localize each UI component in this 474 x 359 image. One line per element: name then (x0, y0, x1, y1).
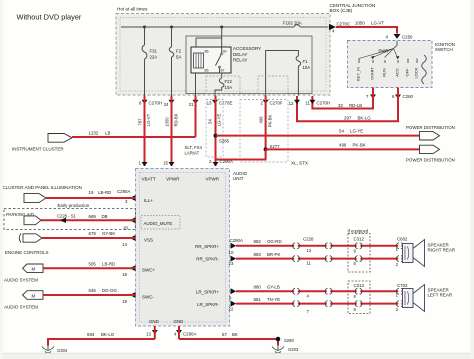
if equipped box (upper) (348, 234, 370, 273)
audio unit box (136, 169, 230, 327)
svg-text:S277: S277 (270, 144, 281, 149)
svg-text:C802: C802 (397, 237, 408, 242)
wire 1050 LG-VT (336, 27, 397, 34)
svg-text:PWR: PWR (379, 48, 389, 53)
wire 880 GY-LB (LR+) (236, 290, 403, 292)
svg-text:S285: S285 (219, 139, 230, 144)
connector C802 (396, 243, 403, 262)
wire 881 TN-YE (LR-) (236, 303, 403, 305)
wire S277 branch to radio VPWR (216, 149, 266, 159)
svg-text:BK-LG: BK-LG (101, 332, 115, 337)
svg-text:646: 646 (89, 288, 97, 293)
svg-text:C270H: C270H (317, 101, 331, 106)
node: bus junction at F31 (143, 26, 146, 29)
svg-text:14: 14 (122, 242, 127, 247)
svg-text:883: 883 (254, 252, 262, 257)
connector: audio system M 1 (23, 264, 44, 273)
svg-text:505: 505 (89, 262, 97, 267)
power distribution arrow 1 (420, 132, 440, 140)
wire 499 PK-BK riser (265, 96, 267, 150)
svg-text:C312: C312 (354, 237, 365, 242)
svg-text:54: 54 (339, 129, 344, 134)
svg-text:1050: 1050 (164, 117, 169, 127)
svg-text:G203: G203 (288, 347, 299, 352)
svg-text:SWITCH: SWITCH (435, 47, 453, 52)
node S285 (214, 134, 218, 138)
fuse F1 10A (296, 56, 301, 66)
svg-text:22: 22 (229, 307, 234, 312)
connector C250 pin 4 (394, 34, 401, 39)
connector: engine controls (19, 234, 21, 243)
svg-text:1050: 1050 (355, 21, 365, 26)
svg-text:KEY_IN: KEY_IN (356, 67, 361, 81)
svg-text:F1: F1 (303, 59, 309, 64)
fuse F2 5A (171, 27, 173, 96)
svg-text:Without DVD player: Without DVD player (17, 13, 82, 22)
svg-text:BOX (CJB): BOX (CJB) (330, 8, 353, 13)
svg-text:DELAY: DELAY (233, 52, 247, 57)
svg-text:297: 297 (344, 115, 352, 120)
svg-text:ACCESSORY: ACCESSORY (233, 46, 261, 51)
svg-text:RIGHT REAR: RIGHT REAR (428, 248, 456, 253)
svg-text:VBATT: VBATT (142, 177, 156, 182)
fuse F31 22A (144, 27, 146, 96)
svg-text:679: 679 (89, 231, 97, 236)
svg-text:C290A: C290A (183, 332, 196, 337)
ground G203 (272, 345, 284, 353)
ignition switch contacts (359, 59, 417, 64)
svg-text:BK: BK (232, 332, 238, 337)
wire: hot bus (121, 26, 329, 28)
svg-text:TN-YE: TN-YE (267, 297, 280, 302)
svg-text:C228 - S1: C228 - S1 (57, 213, 77, 218)
svg-text:AUDIO_MUTE: AUDIO_MUTE (144, 221, 173, 226)
svg-text:10: 10 (229, 250, 234, 255)
wire 505 LB-RD (43, 267, 135, 269)
svg-text:LB: LB (105, 131, 110, 136)
svg-text:Early production: Early production (58, 203, 90, 208)
svg-text:LG-YE: LG-YE (350, 129, 363, 134)
if equipped box (lower) (348, 281, 370, 314)
wire 19 LB-RD (46, 197, 135, 199)
svg-text:PK-BK: PK-BK (353, 142, 366, 147)
svg-text:C702: C702 (397, 283, 408, 288)
svg-text:RR_SPKR+: RR_SPKR+ (195, 244, 219, 249)
svg-text:19: 19 (122, 299, 127, 304)
svg-text:797: 797 (137, 118, 142, 126)
svg-text:19: 19 (89, 190, 94, 195)
svg-text:LEFT REAR: LEFT REAR (428, 293, 453, 298)
svg-text:87: 87 (221, 69, 225, 73)
relay contact (216, 47, 222, 73)
wire 679 GY-BK (42, 237, 135, 239)
svg-text:694: 694 (87, 332, 95, 337)
svg-text:C290A: C290A (220, 159, 233, 164)
radio pin 20 AUDIO_MUTE (130, 217, 136, 223)
svg-text:UNIT: UNIT (233, 176, 244, 181)
svg-text:F2: F2 (176, 49, 182, 54)
wire 694 BK-LG ground left (48, 326, 155, 346)
svg-text:S280: S280 (284, 338, 294, 343)
wire 882 OG-RD (RR+) (236, 245, 403, 247)
wire 883 BR-PK (RR-) (236, 258, 403, 260)
wire 54 LG-YE to power distribution (216, 135, 420, 137)
radio pin 19 SWC- (130, 292, 136, 298)
svg-text:GND: GND (149, 319, 159, 324)
dashed variant box inside CJB (right) (258, 76, 288, 94)
wire 57 BK ground right (179, 326, 278, 346)
svg-text:10A: 10A (303, 65, 311, 70)
svg-text:START: START (370, 67, 375, 80)
dashed variant box inside CJB (left) (206, 76, 240, 94)
svg-text:C260: C260 (403, 94, 414, 99)
svg-text:ACC: ACC (395, 68, 400, 77)
connector C702 (396, 288, 403, 306)
connector C270C pin 4 (329, 24, 336, 30)
svg-text:POWER DISTRIBUTION: POWER DISTRIBUTION (406, 158, 455, 163)
svg-text:RR_SPKR-: RR_SPKR- (196, 257, 219, 262)
CJB internal module sub-box (186, 36, 312, 94)
speaker right rear (403, 244, 414, 263)
connector: parking aid (24, 216, 41, 225)
svg-text:LB-RD: LB-RD (98, 190, 111, 195)
svg-text:SWC-: SWC- (142, 295, 154, 300)
inline connector pair C228 (upper) (293, 243, 300, 262)
radio pin 18 SWC+ (130, 265, 136, 271)
svg-text:12: 12 (289, 101, 294, 106)
ignition coil winding (422, 55, 427, 84)
svg-text:VSS: VSS (144, 238, 153, 243)
svg-text:VPWR: VPWR (166, 177, 180, 182)
svg-text:VPWR: VPWR (206, 177, 220, 182)
svg-text:RUN: RUN (382, 68, 387, 77)
relay feed wire (196, 27, 222, 47)
svg-text:54: 54 (207, 119, 212, 124)
svg-text:BR-PK: BR-PK (267, 252, 280, 257)
svg-text:XL, STX: XL, STX (291, 161, 308, 166)
svg-text:1232: 1232 (89, 131, 99, 136)
fuse F22 10A (215, 73, 222, 96)
svg-text:C270C: C270C (337, 21, 351, 26)
power distribution arrow 2 (420, 145, 440, 153)
svg-text:C313: C313 (354, 283, 365, 288)
svg-text:C290A: C290A (117, 189, 130, 194)
svg-text:LG-VT: LG-VT (371, 21, 384, 26)
svg-text:57: 57 (222, 332, 227, 337)
wire 1050 RD-BK riser to radio pin 15 (171, 96, 173, 167)
connector C313 (355, 288, 362, 306)
svg-text:C250: C250 (402, 35, 413, 40)
svg-text:BK-LG: BK-LG (358, 115, 372, 120)
svg-text:24: 24 (164, 102, 169, 107)
svg-text:499: 499 (258, 116, 263, 124)
node S280 (276, 337, 281, 342)
svg-text:LG-VT: LG-VT (146, 113, 151, 126)
svg-text:OG-RD: OG-RD (267, 239, 282, 244)
node: bus junction at relay feed (220, 26, 223, 29)
svg-text:86: 86 (205, 50, 209, 54)
svg-text:RELAY: RELAY (233, 58, 247, 63)
svg-text:499: 499 (339, 142, 347, 147)
ground G304 (42, 345, 54, 353)
radio pin 14 VSS (130, 235, 136, 241)
svg-text:880: 880 (254, 285, 262, 290)
relay coil ground wire to pin 21 (195, 73, 197, 96)
svg-text:DB: DB (102, 214, 108, 219)
svg-text:If equipped: If equipped (348, 228, 369, 233)
svg-text:10A: 10A (225, 85, 233, 90)
svg-text:GY-LB: GY-LB (267, 285, 280, 290)
wire 1232 LB (72, 136, 196, 138)
svg-text:C270H: C270H (149, 101, 163, 106)
svg-text:F102 20A: F102 20A (283, 21, 302, 26)
wire riser pin 21 to cluster wire (195, 96, 197, 138)
svg-text:M: M (32, 293, 36, 298)
svg-text:POWER DISTRIBUTION: POWER DISTRIBUTION (406, 125, 455, 130)
svg-text:C270E: C270E (219, 101, 232, 106)
svg-text:OFF: OFF (405, 68, 410, 77)
svg-text:XLT, FX4: XLT, FX4 (185, 145, 203, 150)
connector: cluster illumination (24, 194, 46, 203)
connector: instrument cluster (48, 134, 72, 143)
svg-text:12: 12 (307, 248, 312, 253)
svg-text:F31: F31 (150, 49, 158, 54)
svg-text:23: 23 (229, 261, 234, 266)
svg-text:689: 689 (89, 214, 97, 219)
svg-text:CLUSTER AND PANEL ILLUMINATION: CLUSTER AND PANEL ILLUMINATION (3, 185, 82, 190)
svg-text:PK-BK: PK-BK (267, 115, 272, 128)
svg-text:13: 13 (207, 101, 212, 106)
svg-text:ILL+: ILL+ (144, 198, 153, 203)
wire 646 DG-OG (43, 294, 135, 296)
dashed variant box XL STX (240, 100, 288, 163)
connector: audio system M 2 (23, 291, 44, 300)
svg-text:LR_SPKR-: LR_SPKR- (197, 302, 220, 307)
svg-text:13: 13 (146, 332, 151, 337)
svg-text:5A: 5A (176, 55, 181, 60)
svg-text:85: 85 (205, 69, 209, 73)
wire: C270F to F1 loop (266, 51, 299, 96)
svg-text:881: 881 (254, 297, 262, 302)
svg-text:GND: GND (174, 319, 184, 324)
svg-text:Hot at all times: Hot at all times (117, 7, 148, 12)
svg-text:GY-BK: GY-BK (102, 231, 115, 236)
svg-text:21: 21 (189, 102, 194, 107)
relay: accessory delay relay box (191, 47, 231, 73)
fuse F102 20A (on bus) (294, 25, 300, 27)
svg-text:18: 18 (122, 272, 127, 277)
svg-text:LOCK: LOCK (414, 67, 419, 78)
svg-text:22A: 22A (150, 55, 158, 60)
wire 797 LG-VT riser to radio pin 1 (144, 96, 146, 167)
node S277 (264, 147, 268, 151)
svg-text:AUDIO SYSTEM: AUDIO SYSTEM (4, 277, 38, 282)
svg-text:LR_SPKR+: LR_SPKR+ (196, 289, 220, 294)
svg-text:11: 11 (307, 261, 312, 266)
wire 689 DB (41, 219, 135, 221)
svg-text:11: 11 (305, 101, 310, 106)
svg-text:15: 15 (163, 161, 168, 166)
node: bus junction at F2 (170, 26, 173, 29)
dashed variant box XLT FX4 LARIAT (206, 100, 223, 158)
CJB inner dotted border (120, 18, 326, 92)
wire 499 PK-BK to power distribution (266, 148, 420, 150)
inline connector pair (lower second) (325, 288, 332, 306)
speaker left rear (403, 289, 414, 308)
radio pin 3 ILL+ (130, 195, 136, 201)
svg-text:ENGINE CONTROLS: ENGINE CONTROLS (5, 250, 49, 255)
ignition switch feed stub (394, 41, 398, 49)
svg-text:C290A: C290A (230, 238, 243, 243)
central junction box CJB outer box (116, 14, 330, 96)
svg-text:AUDIO SYSTEM: AUDIO SYSTEM (4, 305, 38, 310)
svg-text:RD-BK: RD-BK (173, 113, 178, 126)
svg-text:882: 882 (254, 239, 262, 244)
svg-text:30: 30 (223, 50, 227, 54)
relay coil (194, 53, 204, 68)
svg-text:INSTRUMENT CLUSTER: INSTRUMENT CLUSTER (12, 147, 64, 152)
wire 297 BK-LG (297, 88, 398, 122)
inline connector pair (upper second) (325, 243, 332, 262)
svg-text:C270F: C270F (270, 101, 283, 106)
wire 54 LG-YE riser to radio pin 2 (215, 96, 217, 167)
svg-text:SWC+: SWC+ (142, 268, 155, 273)
svg-text:32: 32 (338, 103, 343, 108)
ignition switch wiper lines (359, 49, 398, 59)
svg-text:G304: G304 (57, 348, 68, 353)
svg-text:DG-OG: DG-OG (102, 288, 117, 293)
scan edge artifacts (decorative) (0, 354, 474, 359)
svg-text:LB-RD: LB-RD (102, 262, 115, 267)
svg-text:C228: C228 (303, 237, 314, 242)
wire 32 RD-LB (312, 88, 373, 109)
svg-text:LARIAT: LARIAT (185, 151, 200, 156)
svg-text:M: M (32, 267, 36, 272)
inline connector pair (lower first) (293, 288, 300, 306)
svg-text:RD-LB: RD-LB (349, 103, 362, 108)
svg-text:LG-YE: LG-YE (216, 114, 221, 127)
connector C312 (355, 243, 362, 262)
ignition switch box (348, 41, 433, 88)
svg-text:F22: F22 (225, 79, 233, 84)
